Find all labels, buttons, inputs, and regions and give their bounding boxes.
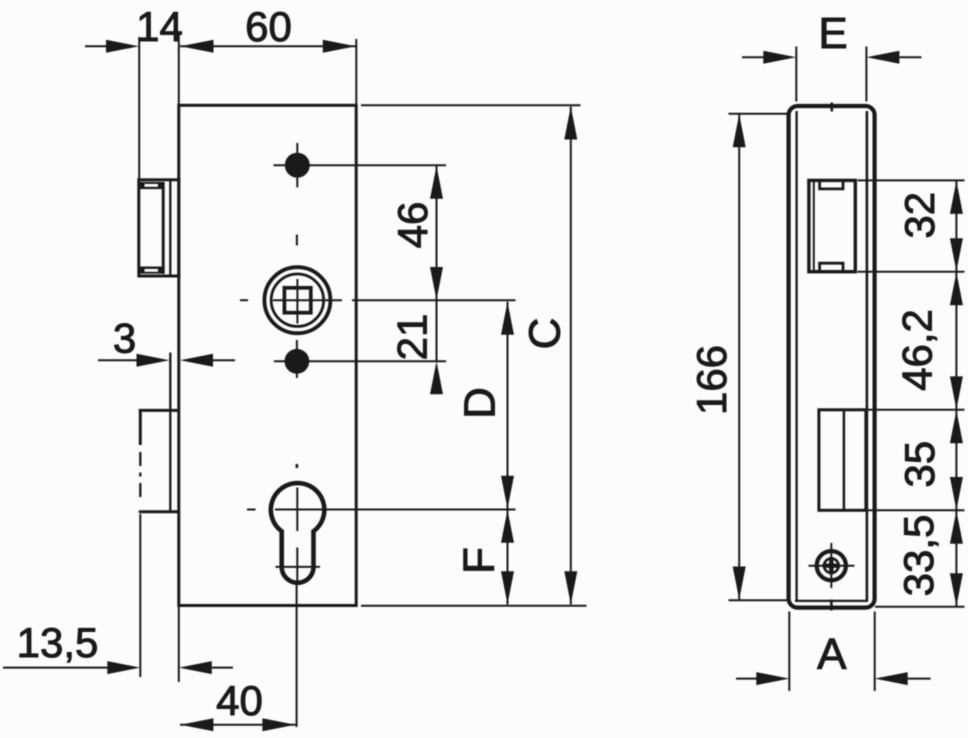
- svg-text:60: 60: [245, 3, 292, 50]
- dimension 35: [950, 410, 963, 510]
- svg-text:33,5: 33,5: [895, 515, 942, 597]
- dimension 33,5: [950, 511, 963, 607]
- bottom parting tick: [830, 600, 833, 611]
- svg-text:46,2: 46,2: [894, 309, 941, 391]
- hole top (fixing hole): [274, 143, 447, 187]
- extension line follower right: [352, 299, 516, 301]
- svg-text:35: 35: [896, 441, 943, 488]
- deadbolt opening (side view): [819, 410, 866, 511]
- follower (square spindle hub): [240, 267, 342, 333]
- dimension F: [501, 510, 514, 605]
- svg-text:F: F: [455, 547, 504, 574]
- dimension D: [501, 302, 514, 509]
- extension case top right: [361, 104, 581, 106]
- svg-text:21: 21: [389, 314, 436, 361]
- right extension lines: [858, 180, 965, 606]
- svg-text:32: 32: [896, 192, 943, 239]
- top parting tick: [831, 103, 834, 112]
- dimension 32: [950, 181, 963, 271]
- svg-text:14: 14: [136, 3, 183, 50]
- dimension 46,2: [950, 272, 963, 410]
- dimension 3 (faceplate thickness): [98, 354, 235, 367]
- dimension A: [736, 612, 931, 692]
- dimension 46: [430, 166, 443, 300]
- latch bolt: [139, 180, 179, 276]
- svg-text:46: 46: [389, 202, 436, 249]
- dimension C: [564, 107, 577, 605]
- latch opening (side view): [809, 180, 855, 271]
- hole lower (fixing hole): [274, 349, 446, 374]
- svg-text:D: D: [456, 387, 505, 419]
- dimension 21: [430, 300, 443, 394]
- dimension E: [742, 47, 922, 102]
- faceplate edge line: [169, 180, 171, 513]
- svg-text:C: C: [521, 318, 570, 350]
- svg-text:40: 40: [216, 677, 263, 724]
- dimension 40: [180, 718, 296, 731]
- deadbolt axis extension (13,5): [139, 514, 141, 677]
- dimension 13,5: [3, 606, 233, 683]
- dimension 60: [180, 39, 356, 105]
- side view body (faceplate): [789, 106, 875, 608]
- dimension 166: [729, 114, 788, 601]
- vertical centerline of lock axis: [296, 235, 299, 728]
- svg-text:3: 3: [113, 315, 136, 362]
- dimension 14: [85, 33, 179, 180]
- svg-text:E: E: [818, 9, 847, 58]
- deadbolt: [139, 409, 179, 512]
- svg-text:A: A: [817, 630, 847, 679]
- extension line cylinder right: [275, 509, 516, 511]
- extension case bottom right: [361, 605, 587, 607]
- svg-text:166: 166: [688, 345, 735, 415]
- lock case (front view): [179, 105, 356, 605]
- svg-text:13,5: 13,5: [17, 619, 99, 666]
- screw head: [809, 543, 855, 588]
- euro profile cylinder hole: [271, 483, 325, 583]
